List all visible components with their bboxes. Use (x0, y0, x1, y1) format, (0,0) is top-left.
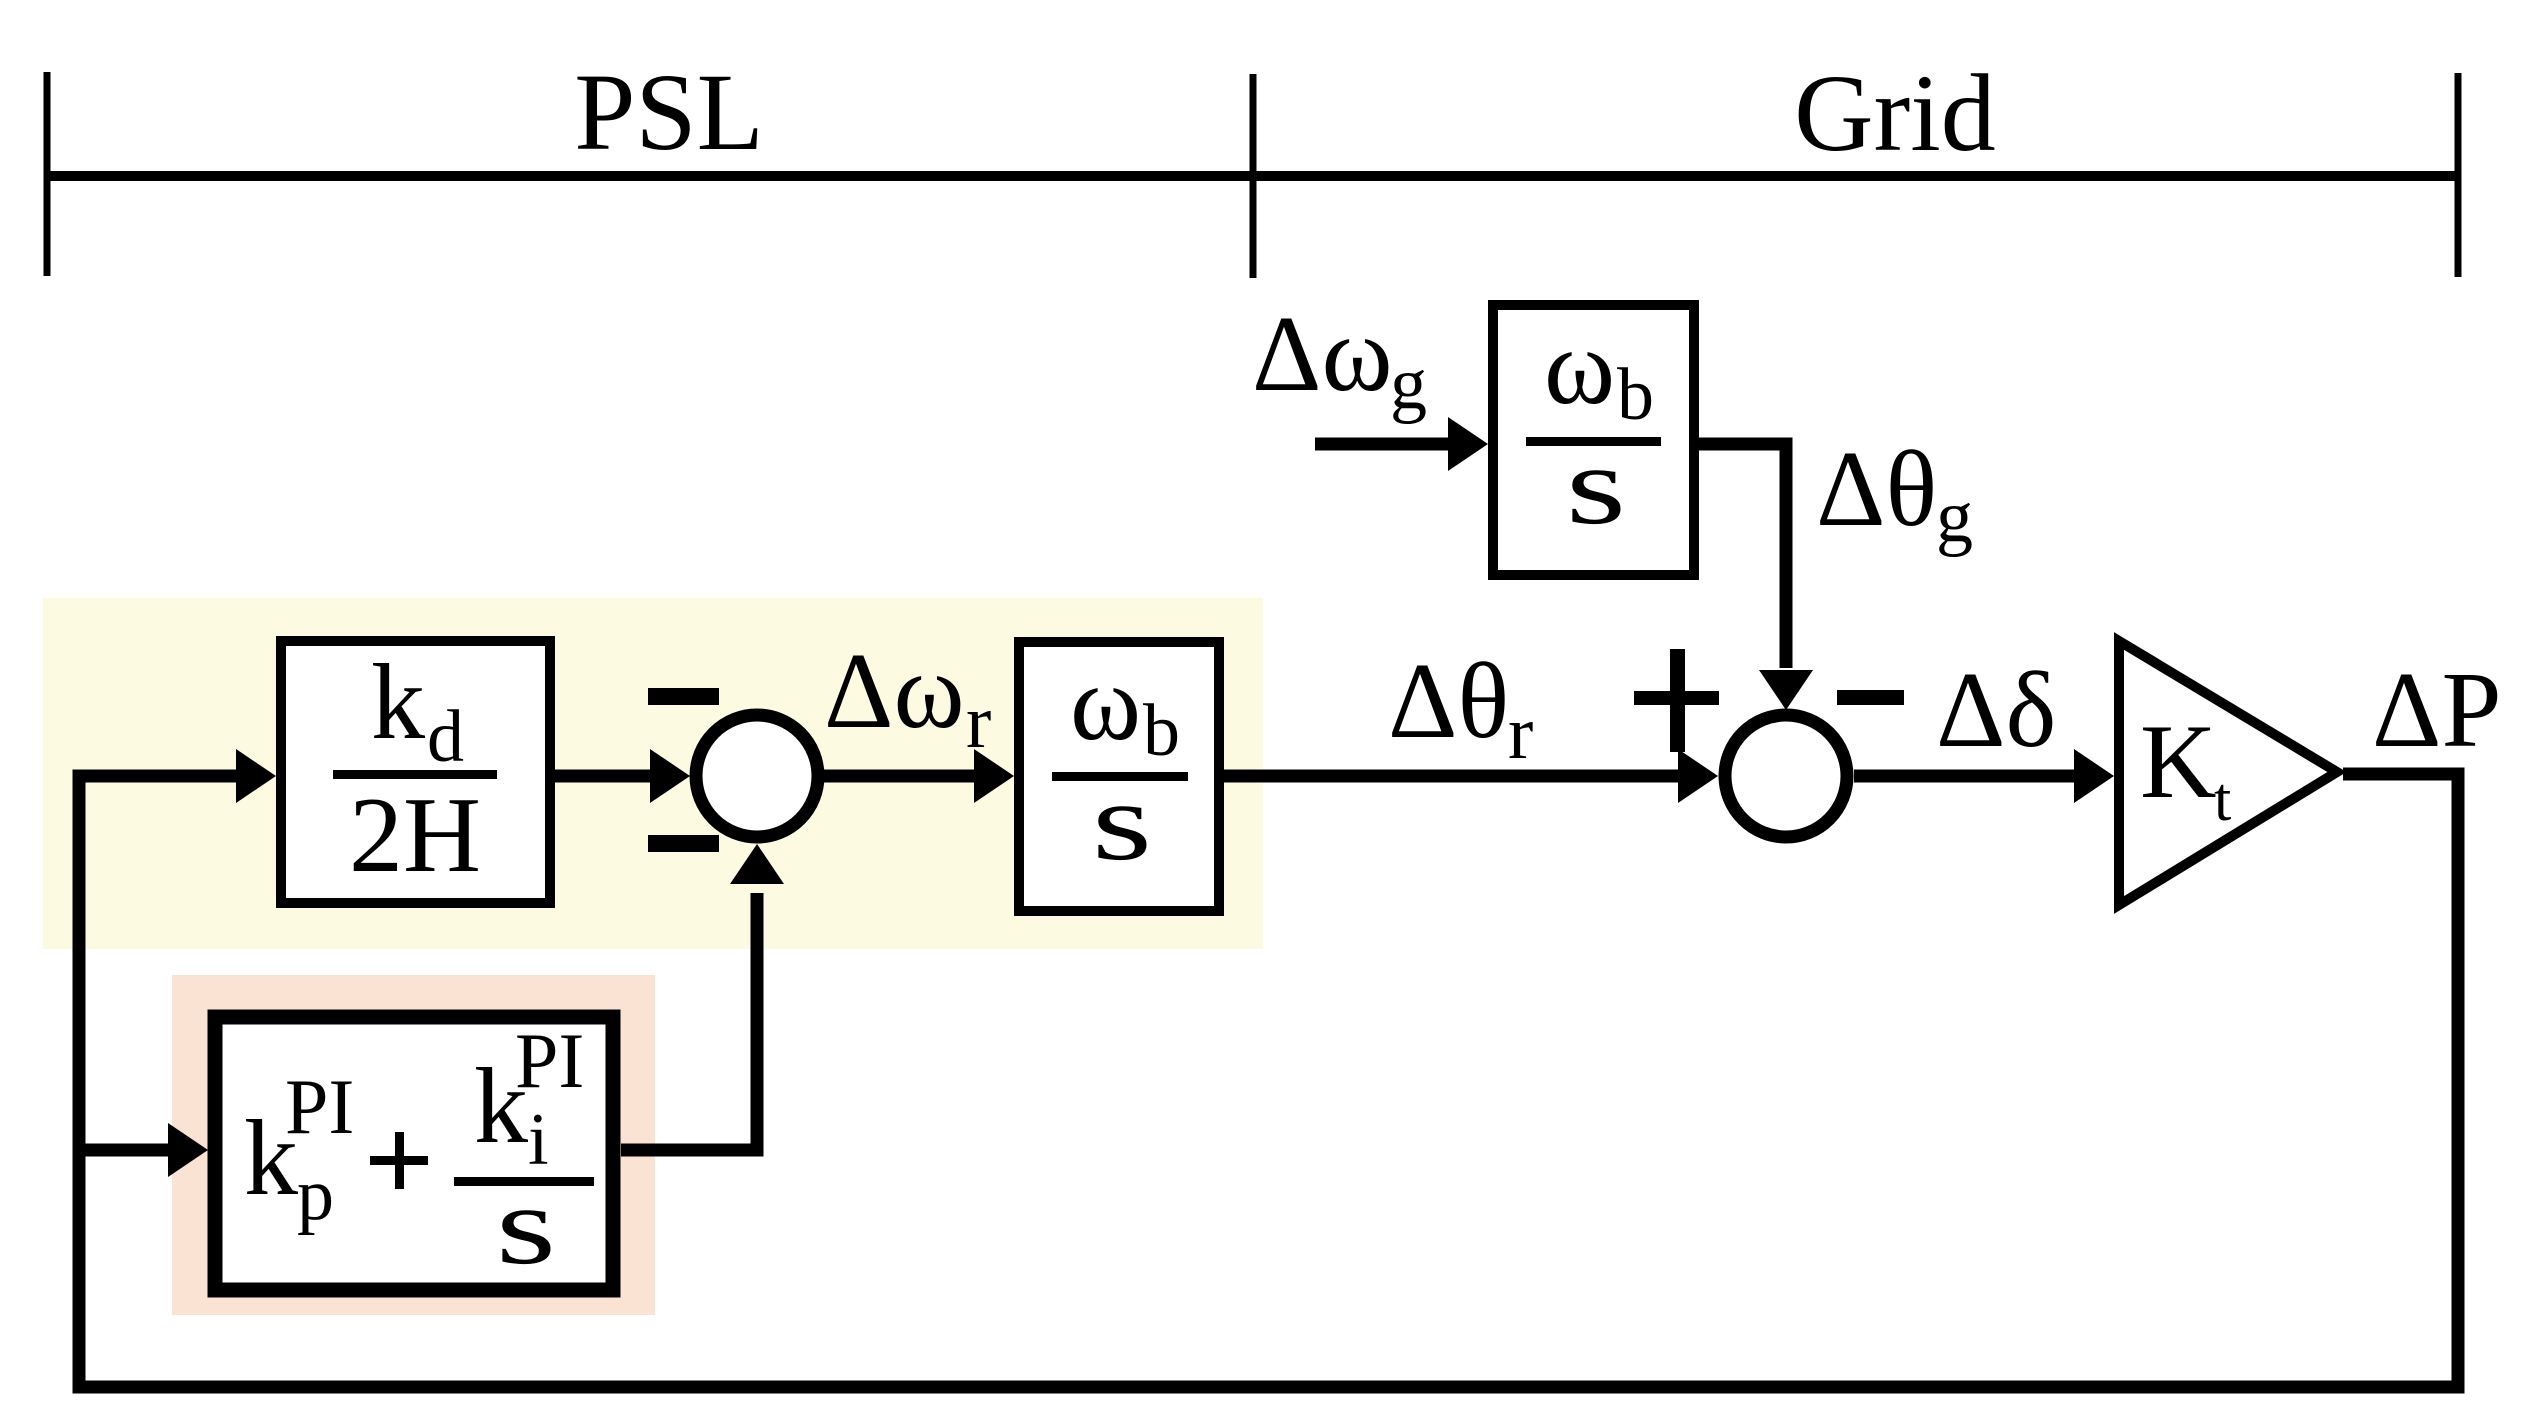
svg-text:Grid: Grid (1794, 52, 1996, 174)
wire sum1 to omega_b/s block (824, 770, 980, 783)
svg-text:k: k (371, 643, 425, 762)
label PSL (574, 51, 764, 173)
PSL highlight band (yellow) (43, 598, 1263, 949)
svg-text:g: g (1936, 476, 1973, 558)
summing junction sum1 (696, 715, 818, 837)
block kd/2H (281, 641, 550, 903)
svg-text:K: K (2140, 703, 2217, 820)
svg-text:Δθ: Δθ (1388, 642, 1509, 761)
arrowhead up into sum1 (730, 844, 784, 884)
arrowhead into sum2 (1678, 749, 1718, 803)
arrowhead into sum1 (650, 749, 690, 803)
svg-text:PI: PI (515, 1017, 584, 1104)
svg-text:s: s (1566, 424, 1626, 548)
block PI controller kpPI + kiPI/s (215, 1017, 613, 1290)
bracket tick left (44, 72, 51, 276)
svg-text:ω: ω (1544, 308, 1615, 427)
svg-text:PSL: PSL (574, 51, 764, 173)
minus sign lower-left of sum1 (648, 835, 719, 852)
arrowhead into PI block (168, 1123, 208, 1177)
arrowhead into gain Kt (2074, 749, 2114, 803)
svg-text:s: s (1092, 760, 1152, 884)
bracket tick right (2455, 73, 2462, 277)
wire omega_b/s to sum2 (1224, 770, 1688, 783)
block omega_b/s (top) (1493, 305, 1694, 575)
bracket horizontal line (47, 171, 2458, 181)
wire kd/2H to sum1 (555, 770, 655, 783)
PI highlight band (orange) (172, 975, 655, 1315)
arrowhead into top omega_b/s block (1448, 417, 1488, 471)
wire sum2 to gain Kt (1854, 770, 2080, 783)
label Grid (1794, 52, 1996, 174)
arrowhead down into sum2 (1759, 670, 1813, 710)
svg-text:r: r (966, 680, 991, 764)
wire feedback loop (DP down, bottom, left vertical, into kd/2H) (79, 774, 2458, 1387)
svg-text:d: d (427, 696, 464, 778)
minus sign upper-left of sum1 (648, 688, 719, 705)
arrowhead into omega_b/s block (974, 749, 1014, 803)
wire top block to sum2 (right then down) (1699, 444, 1786, 668)
minus sign right of sum2 (1837, 690, 1904, 705)
svg-text:2H: 2H (349, 776, 481, 895)
label Delta-delta (1936, 651, 2056, 770)
label Delta-P (2372, 651, 2502, 770)
label Delta-theta-r (1388, 642, 1533, 775)
arrowhead into kd/2H block (236, 749, 276, 803)
svg-text:ΔP: ΔP (2372, 651, 2502, 770)
svg-text:g: g (1390, 343, 1427, 425)
label Delta-omega-g (1252, 295, 1427, 425)
svg-text:s: s (496, 1164, 556, 1288)
svg-text:r: r (1508, 691, 1533, 775)
svg-text:Δω: Δω (824, 632, 965, 751)
svg-text:p: p (297, 1154, 334, 1236)
gain triangle Kt (2119, 641, 2337, 905)
svg-text:Δω: Δω (1252, 295, 1393, 414)
svg-text:Δδ: Δδ (1936, 651, 2056, 770)
svg-text:ω: ω (1070, 644, 1141, 763)
svg-text:t: t (2214, 766, 2231, 834)
label Delta-theta-g (1816, 430, 1973, 558)
bracket tick middle (1250, 74, 1257, 278)
svg-text:Δθ: Δθ (1816, 430, 1937, 549)
wire PI block output (right then up to sum1) (621, 893, 757, 1150)
svg-text:PI: PI (285, 1063, 354, 1150)
plus sign left of sum2 (1634, 649, 1719, 752)
label Delta-omega-r (824, 632, 991, 764)
wire branch from left vertical into PI block (73, 1144, 172, 1157)
wire input to top omega_b/s block (1315, 438, 1455, 451)
summing junction sum2 (1725, 715, 1847, 837)
block omega_b/s (middle) (1019, 642, 1219, 911)
